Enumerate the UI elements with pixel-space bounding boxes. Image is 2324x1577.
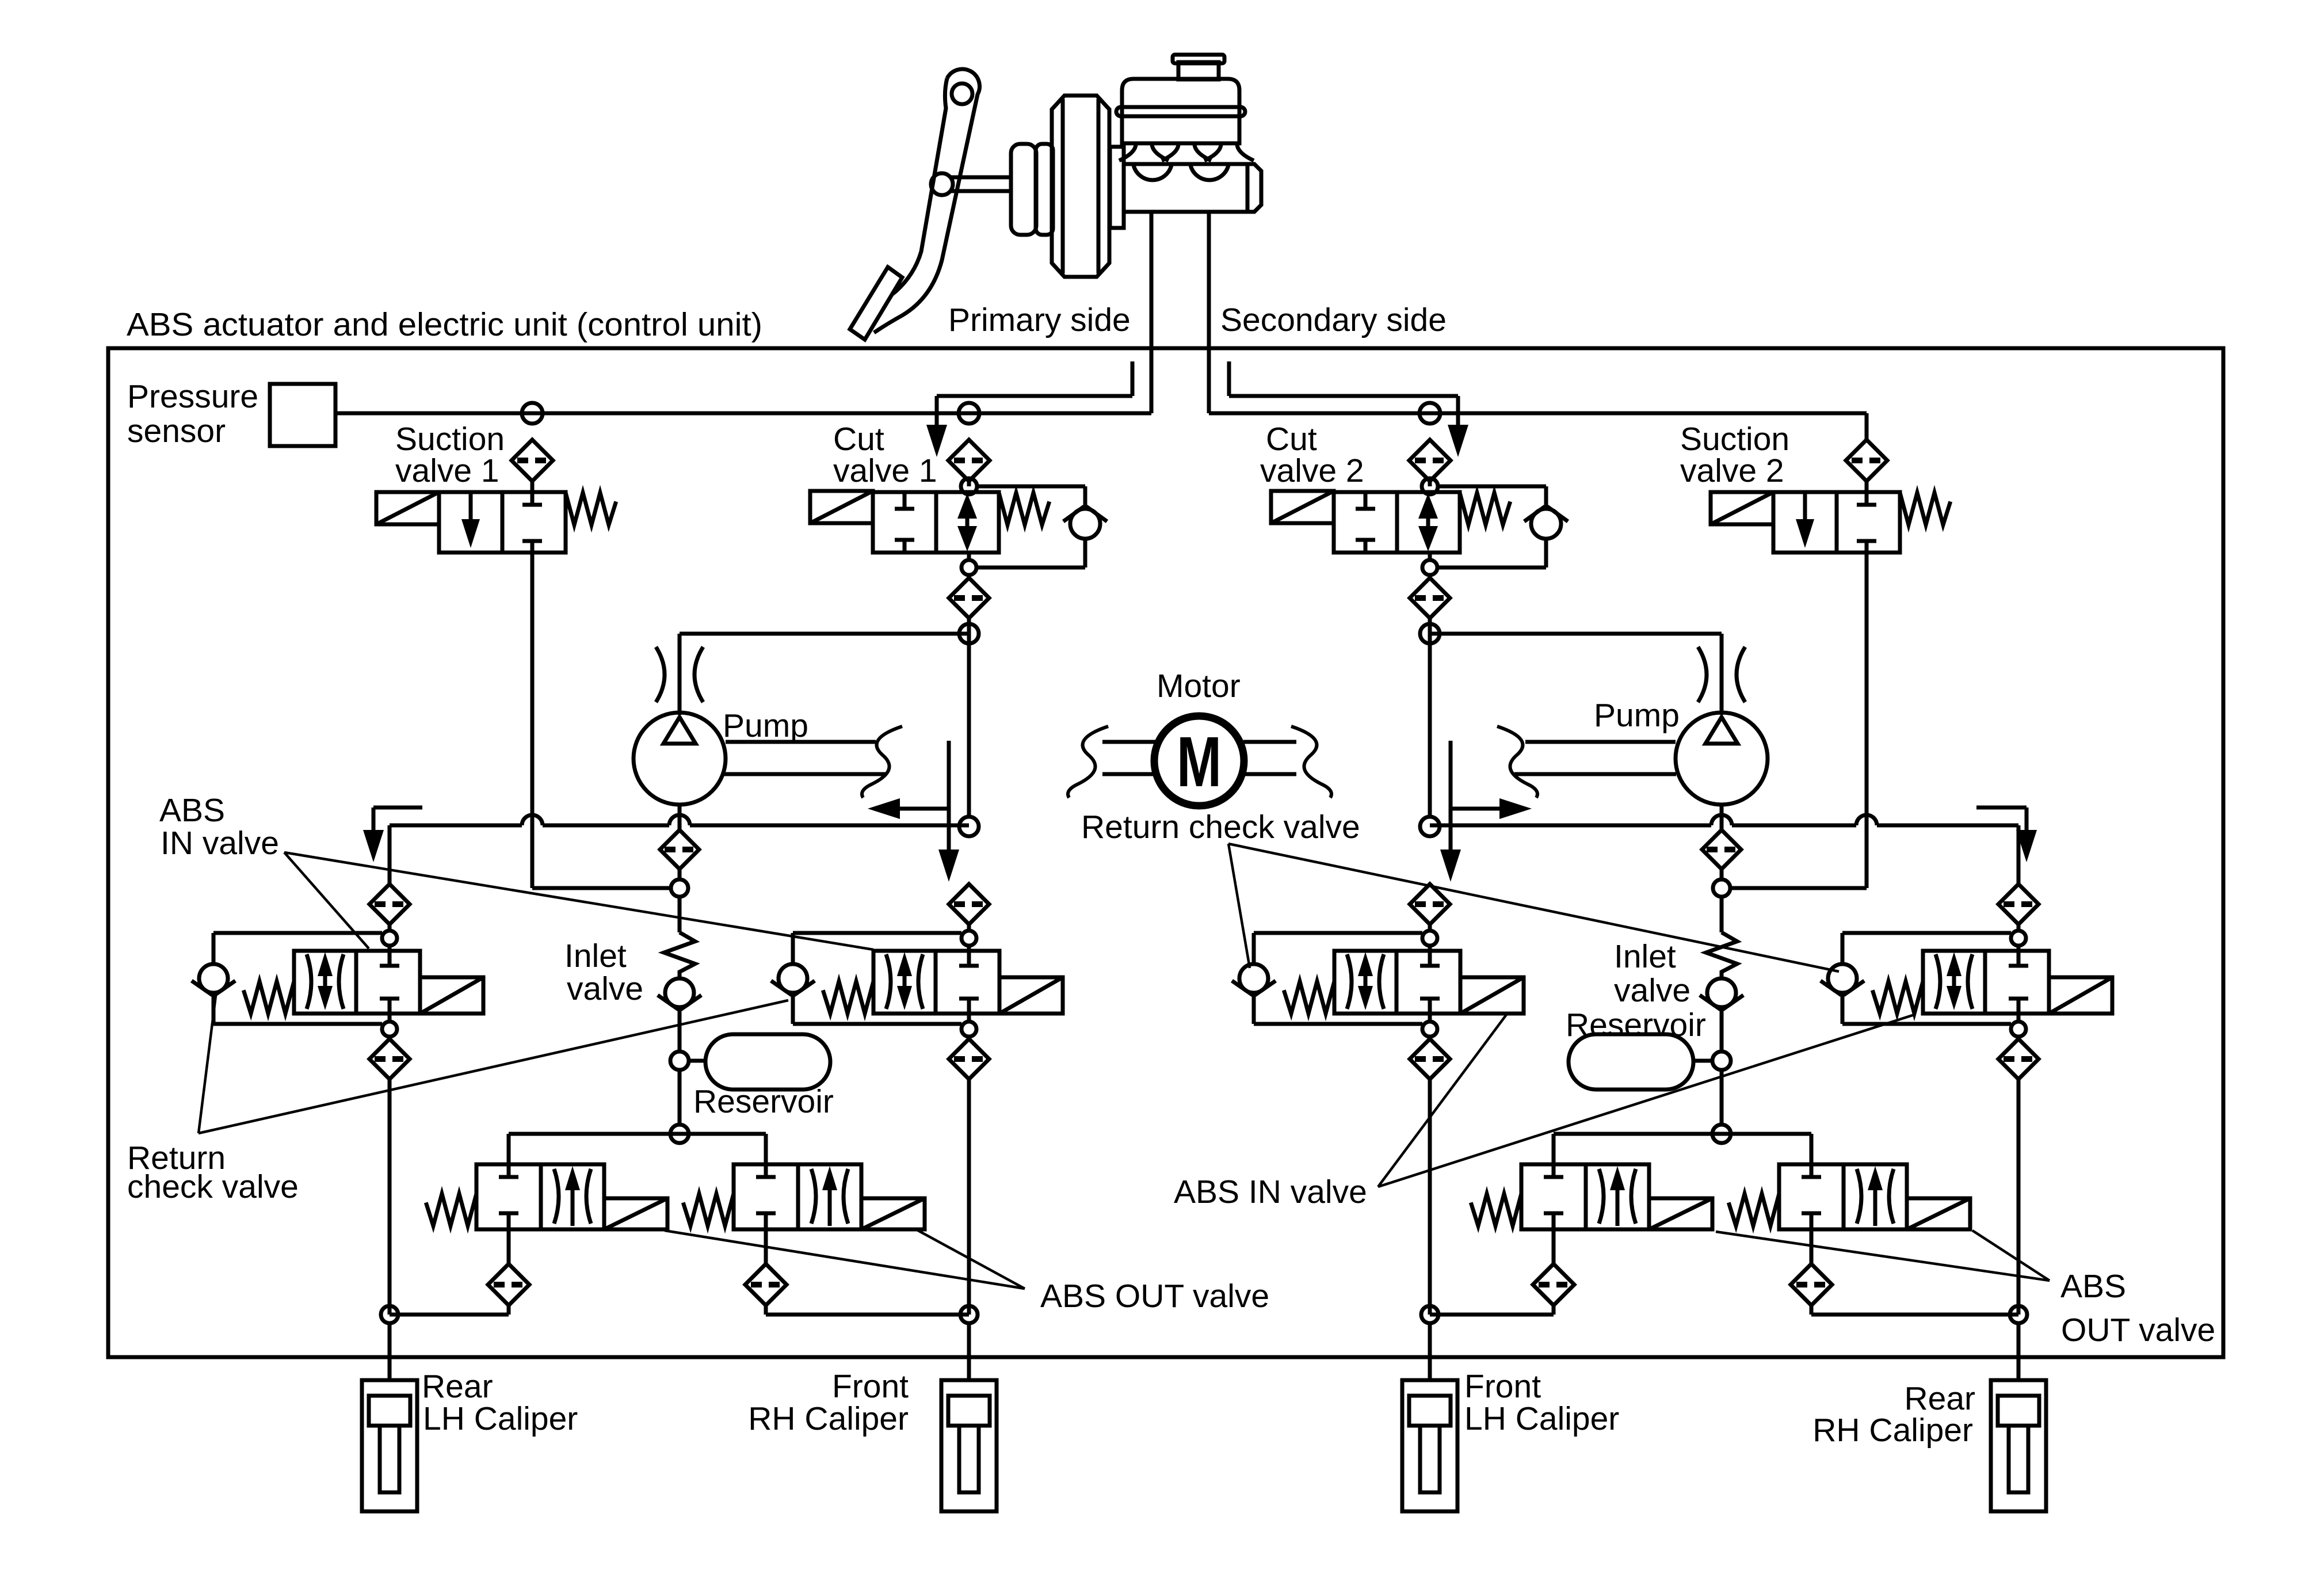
wire primary port xyxy=(1150,213,1154,413)
svg-text:Front: Front xyxy=(1464,1368,1541,1405)
suction valve 1 solenoid xyxy=(376,492,439,524)
suction valve 1 spring xyxy=(566,493,616,525)
ABS IN valve 1 (rear LH) node above body xyxy=(382,924,397,951)
node caliper 4 xyxy=(2010,1306,2027,1380)
svg-text:valve: valve xyxy=(567,970,643,1007)
pointer ABS IN left to valve 2 xyxy=(284,852,873,950)
reservoir 2 node xyxy=(1693,1052,1731,1070)
ABS OUT valve A solenoid xyxy=(604,1198,667,1229)
return check valve label center xyxy=(1081,809,1360,845)
svg-text:valve 2: valve 2 xyxy=(1680,452,1784,489)
wire primary distribution line xyxy=(335,412,1151,416)
pump 2 suction node xyxy=(1713,869,1730,897)
ABS IN valve 4 (rear RH) spring xyxy=(1872,981,1923,1014)
return check valve label bottom-left xyxy=(127,1140,299,1205)
return check valve pump 2 spring xyxy=(1706,897,1737,977)
node primary-suction1 xyxy=(522,403,543,424)
ABS IN valve 2 (front RH) node above body xyxy=(961,924,976,951)
pump 2 drive shaft xyxy=(1497,726,1676,798)
svg-text:valve 2: valve 2 xyxy=(1260,452,1364,489)
flow arrow into cut valve 1 xyxy=(926,361,1132,457)
label secondary side xyxy=(1220,302,1447,338)
cut valve 1 label xyxy=(833,421,937,489)
cut valve 2 lower filter xyxy=(1410,575,1450,618)
svg-text:Pump: Pump xyxy=(1594,697,1680,734)
node caliper 1 xyxy=(381,1306,398,1380)
pump 2 suction filter xyxy=(1702,830,1741,869)
pointer return-check to check 3 xyxy=(1228,844,1250,968)
ABS OUT valve C lower filter xyxy=(1533,1229,1574,1305)
vacuum booster xyxy=(1052,96,1109,277)
pointer ABS IN left to valve 1 xyxy=(284,852,369,949)
pump 1 suction line xyxy=(678,805,682,830)
wire secondary distribution line xyxy=(1209,413,1867,440)
pump 2 body xyxy=(1676,713,1768,805)
suction valve 2 spring xyxy=(1900,493,1951,525)
ABS OUT valve A spring xyxy=(426,1194,476,1226)
svg-text:RH Caliper: RH Caliper xyxy=(748,1400,909,1437)
node cut1 junction xyxy=(959,817,979,836)
wire out-line 1 xyxy=(509,1134,766,1164)
pointer ABS IN right to valve 3 xyxy=(1378,1015,1506,1187)
pump 2 damper arcs xyxy=(1698,647,1745,702)
reservoir 1 node xyxy=(670,1052,705,1070)
cut valve 2 spring xyxy=(1460,493,1510,525)
wire outD to caliper4 node xyxy=(1811,1305,2018,1315)
ABS IN valve 2 (front RH) spring xyxy=(823,981,873,1014)
ABS IN valve 3 (front LH) upper filter xyxy=(1410,884,1450,924)
cut valve 1 valve body xyxy=(873,492,999,553)
ABS OUT valve C valve body xyxy=(1521,1164,1649,1229)
ABS OUT valve C solenoid xyxy=(1649,1198,1712,1229)
reservoir 2 label xyxy=(1566,1007,1706,1043)
cut valve 1 spring xyxy=(999,493,1050,525)
caliper 4 label xyxy=(1812,1380,1975,1449)
svg-text:sensor: sensor xyxy=(127,413,226,450)
ABS OUT valve A valve body xyxy=(476,1164,604,1229)
ABS OUT valve label left xyxy=(1040,1278,1269,1315)
svg-text:valve: valve xyxy=(1614,972,1690,1009)
svg-text:Front: Front xyxy=(832,1368,909,1405)
cut valve 1 solenoid xyxy=(810,491,873,523)
svg-text:LH Caliper: LH Caliper xyxy=(1464,1400,1619,1437)
svg-text:ABS: ABS xyxy=(159,792,225,829)
ABS OUT valve D solenoid xyxy=(1907,1198,1970,1229)
cut valve 2 filter xyxy=(1409,440,1451,486)
svg-text:Inlet: Inlet xyxy=(564,938,627,974)
return check valve pump 2 check ball xyxy=(1700,978,1743,1052)
ABS IN valve 4 (rear RH) return check valve (bypass) xyxy=(1821,933,2011,1024)
svg-text:ABS OUT valve: ABS OUT valve xyxy=(1040,1278,1269,1315)
push rod discs xyxy=(1011,144,1053,235)
cut valve 2 node below body xyxy=(1422,553,1437,575)
ABS IN valve 3 (front LH) node below body xyxy=(1422,1014,1437,1037)
suction valve 2 lower wire xyxy=(1730,553,1867,888)
svg-text:Motor: Motor xyxy=(1157,668,1241,704)
pump 1 drive shaft xyxy=(724,726,902,798)
wire rear-RH brake line xyxy=(1430,815,2018,884)
motor label xyxy=(1157,668,1241,704)
pointer return-check-bl to check 1 xyxy=(199,991,216,1133)
ABS IN valve 4 (rear RH) lower filter xyxy=(1998,1037,2039,1079)
ABS OUT valve D valve body xyxy=(1779,1164,1907,1229)
cut valve 2 to junction wire xyxy=(1428,618,1432,817)
master cylinder body xyxy=(1110,147,1261,228)
caliper front LH body xyxy=(1402,1380,1457,1511)
caliper 1 label xyxy=(422,1368,578,1437)
pointer ABS IN right to valve 4 xyxy=(1378,1015,1914,1187)
pump 1 body xyxy=(634,713,726,805)
cut valve 1 node below body xyxy=(961,553,976,575)
pointer return-check-bl to check 2 xyxy=(199,1000,788,1133)
reservoir 1 xyxy=(705,1034,830,1090)
ABS OUT valve B valve body xyxy=(734,1164,861,1229)
cut valve 1 bypass check valve xyxy=(976,486,1107,567)
ABS actuator enclosure box xyxy=(108,348,2223,1357)
master cylinder ports xyxy=(1119,144,1254,180)
caliper 3 label xyxy=(1464,1368,1619,1437)
svg-text:OUT valve: OUT valve xyxy=(2061,1312,2215,1349)
suction valve 2 filter xyxy=(1846,440,1887,492)
ABS IN valve 4 (rear RH) node below body xyxy=(2011,1014,2026,1037)
ABS IN valve 1 (rear LH) node below body xyxy=(382,1014,397,1037)
cut valve 2 node above body xyxy=(1422,478,1438,494)
pump 2 suction line xyxy=(1720,805,1724,830)
cut valve 2 bypass check valve xyxy=(1437,486,1568,567)
pump 1 suction node xyxy=(671,869,688,897)
cut valve 2 label xyxy=(1260,421,1364,489)
svg-text:valve 1: valve 1 xyxy=(395,452,499,489)
ABS IN valve 2 (front RH) return check valve (bypass) xyxy=(771,933,961,1024)
wire reservoir2 to out-line xyxy=(1720,1070,1724,1125)
pump 1 outlet line xyxy=(680,634,969,715)
svg-text:Inlet: Inlet xyxy=(1614,938,1676,975)
ABS IN valve 1 (rear LH) return check valve (bypass) xyxy=(192,933,382,1024)
svg-text:Secondary side: Secondary side xyxy=(1220,302,1447,338)
cut valve 2 valve body xyxy=(1334,492,1460,553)
label primary side xyxy=(948,302,1131,338)
pedal push rod xyxy=(931,173,1011,195)
brake pedal arm xyxy=(874,69,979,333)
wire inlet4 to caliper node xyxy=(2017,1079,2021,1315)
suction valve 2 valve body xyxy=(1773,492,1900,553)
wire outB to caliper2 node xyxy=(766,1305,969,1315)
wire outC to caliper3 node xyxy=(1430,1305,1554,1315)
node caliper 2 xyxy=(960,1306,978,1380)
pointer return-check to check 4 xyxy=(1228,844,1839,972)
ABS IN valve 3 (front LH) spring xyxy=(1284,981,1334,1014)
svg-text:Pressure: Pressure xyxy=(127,378,258,415)
flow arrow toward pump 2 xyxy=(1440,741,1532,882)
ABS IN valve 2 (front RH) node below body xyxy=(961,1014,976,1037)
ABS IN valve 3 (front LH) valve body xyxy=(1334,951,1460,1014)
wire inlet3 to caliper node xyxy=(1428,1079,1432,1315)
ABS IN valve label left xyxy=(159,792,279,862)
cut valve 1 node above body xyxy=(961,478,977,494)
flow arrow into ABS IN valve 4 xyxy=(1976,807,2037,862)
ABS OUT valve B lower filter xyxy=(745,1229,787,1305)
cut valve 2 solenoid xyxy=(1271,491,1334,523)
svg-text:M: M xyxy=(1177,723,1222,802)
suction valve 2 label xyxy=(1680,421,1789,489)
reservoir tank xyxy=(1116,55,1245,143)
svg-text:Reservoir: Reservoir xyxy=(1566,1007,1706,1043)
ABS IN valve 3 (front LH) solenoid xyxy=(1460,977,1524,1014)
svg-text:Pump: Pump xyxy=(723,707,808,744)
flow arrow toward pump 1 xyxy=(868,741,959,882)
ABS IN valve label right xyxy=(1174,1174,1367,1210)
ABS IN valve 3 (front LH) node above body xyxy=(1422,924,1437,951)
node pump1 outlet junction xyxy=(959,624,979,643)
wire outA to caliper1 node xyxy=(390,1305,509,1315)
wire reservoir1 to out-line xyxy=(678,1070,682,1125)
node secondary-cut2 xyxy=(1419,403,1440,424)
caliper 2 label xyxy=(748,1368,909,1437)
suction valve 1 label xyxy=(395,421,505,489)
pointer ABS OUT left to valve B xyxy=(915,1229,1025,1289)
ABS IN valve 2 (front RH) lower filter xyxy=(949,1037,989,1079)
ABS OUT valve B spring xyxy=(683,1194,734,1226)
wire rear-LH brake line xyxy=(390,815,969,884)
svg-text:valve 1: valve 1 xyxy=(833,452,937,489)
reservoir 2 xyxy=(1569,1034,1693,1090)
ABS IN valve 1 (rear LH) upper filter xyxy=(369,884,410,924)
pressure sensor label xyxy=(127,378,258,450)
ABS IN valve 4 (rear RH) solenoid xyxy=(2049,977,2112,1014)
title label xyxy=(127,306,762,343)
return check valve pump 1 check ball xyxy=(658,978,701,1052)
pointer ABS OUT left to valve A xyxy=(665,1231,1025,1289)
pump 1 suction filter xyxy=(660,830,699,869)
ABS IN valve 2 (front RH) upper filter xyxy=(949,884,989,924)
svg-text:Return check valve: Return check valve xyxy=(1081,809,1360,845)
ABS OUT valve A lower filter xyxy=(488,1229,529,1305)
ABS IN valve 3 (front LH) return check valve (bypass) xyxy=(1232,933,1422,1024)
ABS IN valve 1 (rear LH) lower filter xyxy=(369,1037,410,1079)
wire secondary port xyxy=(1207,213,1211,413)
reservoir 1 label xyxy=(693,1083,834,1120)
svg-text:RH Caliper: RH Caliper xyxy=(1812,1412,1973,1449)
cut valve 1 lower filter xyxy=(949,575,989,618)
caliper rear LH body xyxy=(362,1380,417,1511)
ABS IN valve 1 (rear LH) valve body xyxy=(294,951,420,1014)
ABS OUT valve label right xyxy=(2060,1268,2215,1349)
wire out-line 2 xyxy=(1554,1134,1811,1164)
brake pedal pivot xyxy=(952,83,972,104)
svg-text:Rear: Rear xyxy=(422,1368,493,1405)
ABS IN valve 2 (front RH) valve body xyxy=(873,951,999,1014)
pointer ABS OUT right to valve D xyxy=(1972,1231,2050,1281)
node pump2 outlet junction xyxy=(1420,624,1440,643)
suction valve 1 filter xyxy=(512,440,553,492)
ABS OUT valve D lower filter xyxy=(1791,1229,1832,1305)
ABS IN valve 1 (rear LH) spring xyxy=(243,981,294,1014)
return check valve pump 1 spring xyxy=(664,897,695,977)
pump 1 label xyxy=(723,707,808,744)
caliper front RH body xyxy=(941,1380,997,1511)
ABS OUT valve C spring xyxy=(1471,1194,1521,1226)
ABS OUT valve B solenoid xyxy=(861,1198,925,1229)
ABS IN valve 4 (rear RH) node above body xyxy=(2011,924,2026,951)
node primary-cut1 xyxy=(959,403,979,424)
brake pedal pad xyxy=(850,267,902,340)
pump 2 outlet line xyxy=(1430,634,1722,715)
inlet valve label right xyxy=(1614,938,1690,1009)
motor right shaft stub xyxy=(1243,726,1331,798)
pump 2 label xyxy=(1594,697,1680,734)
wire inlet2 to caliper node xyxy=(967,1079,971,1315)
pointer ABS OUT right to valve C xyxy=(1716,1232,2050,1281)
svg-text:Primary side: Primary side xyxy=(948,302,1131,338)
inlet valve label left xyxy=(564,938,643,1007)
caliper rear RH body xyxy=(1991,1380,2046,1511)
wire inlet1 to caliper node xyxy=(388,1079,392,1315)
svg-text:IN valve: IN valve xyxy=(161,825,279,862)
cut valve 1 to junction wire xyxy=(967,618,971,817)
node out-line 1 xyxy=(670,1125,689,1143)
svg-text:ABS actuator and electric unit: ABS actuator and electric unit (control … xyxy=(127,306,762,343)
pressure sensor xyxy=(270,384,335,446)
ABS IN valve 4 (rear RH) valve body xyxy=(1923,951,2049,1014)
node caliper 3 xyxy=(1421,1306,1438,1380)
node cut2 junction xyxy=(1420,817,1440,836)
motor M1 xyxy=(1154,716,1244,806)
cut valve 1 filter xyxy=(948,440,990,486)
svg-text:Reservoir: Reservoir xyxy=(693,1083,834,1120)
node out-line 2 xyxy=(1712,1125,1731,1143)
svg-text:ABS: ABS xyxy=(2060,1268,2126,1305)
svg-text:check valve: check valve xyxy=(127,1168,299,1205)
svg-text:LH Caliper: LH Caliper xyxy=(423,1400,578,1437)
ABS IN valve 3 (front LH) lower filter xyxy=(1410,1037,1450,1079)
suction valve 1 lower wire xyxy=(532,553,671,888)
ABS IN valve 2 (front RH) solenoid xyxy=(999,977,1063,1014)
pump 1 damper arcs xyxy=(656,647,703,702)
suction valve 1 valve body xyxy=(439,492,566,553)
flow arrow into cut valve 2 xyxy=(1229,361,1468,457)
ABS IN valve 1 (rear LH) solenoid xyxy=(420,977,483,1014)
flow arrow into ABS IN valve 1 xyxy=(363,807,422,862)
motor left shaft stub xyxy=(1068,726,1155,798)
ABS OUT valve D spring xyxy=(1728,1194,1779,1226)
svg-text:ABS IN valve: ABS IN valve xyxy=(1174,1174,1367,1210)
suction valve 2 solenoid xyxy=(1711,492,1773,524)
ABS IN valve 4 (rear RH) upper filter xyxy=(1998,884,2039,924)
